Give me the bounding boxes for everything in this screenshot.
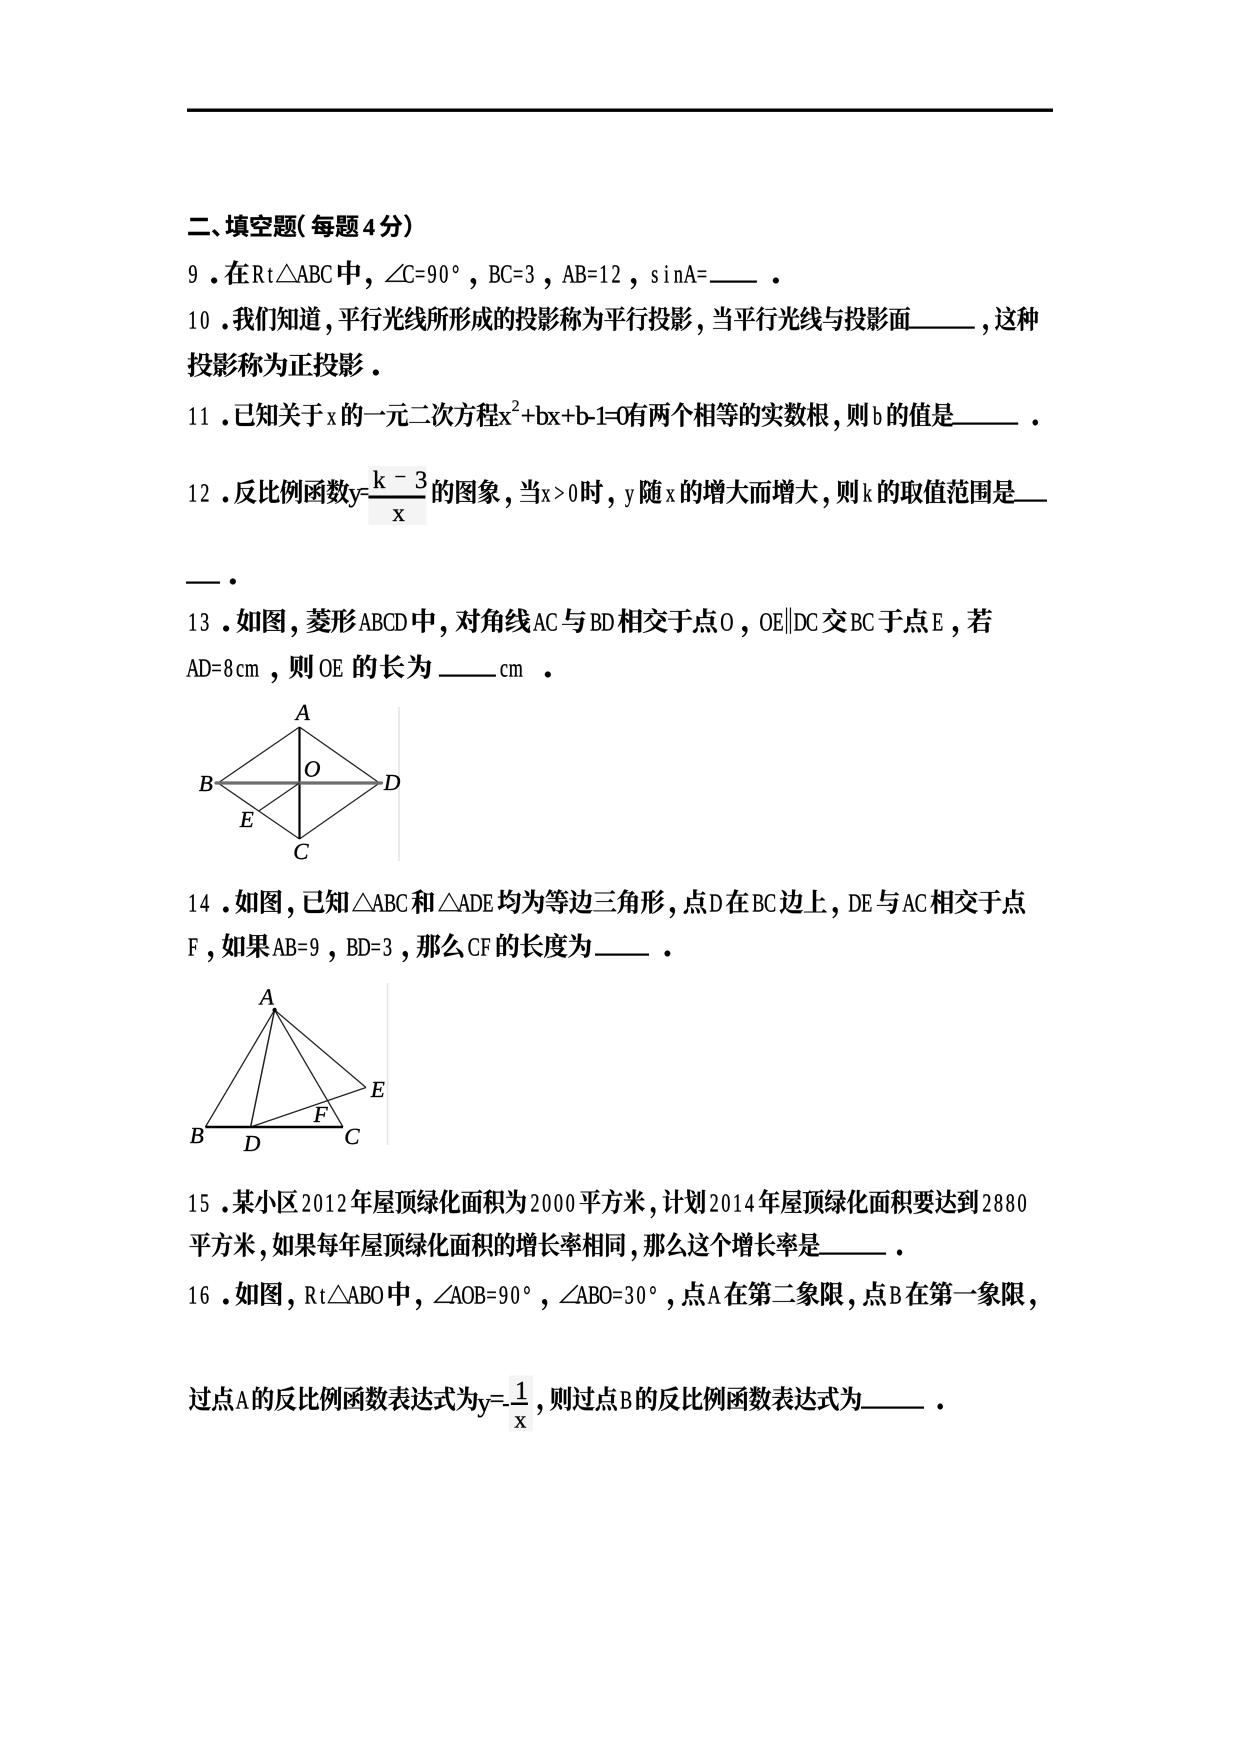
question 15 line 1 — [190, 1189, 1026, 1218]
figure 14 label D — [244, 1136, 261, 1151]
figure 14: baseline BC — [205, 1126, 343, 1128]
figure 13: rhombus side BC — [218, 783, 300, 839]
figure 14: vertex dot at A — [272, 1008, 276, 1012]
figure 14 label A — [259, 989, 274, 1004]
figure 13 label B — [199, 776, 212, 791]
figure 13 label E — [240, 812, 254, 827]
question 10 line 2 — [188, 352, 379, 376]
figure 13 label D — [384, 775, 401, 790]
figure 14 label F — [313, 1107, 327, 1122]
figure 13: rhombus side CD — [300, 783, 380, 839]
figure 13 label C — [294, 844, 308, 859]
question 14 line 1 — [190, 889, 1025, 918]
question 11 text — [190, 400, 1038, 431]
figure 14 label B — [190, 1128, 203, 1143]
question 14 line 2 — [188, 933, 670, 962]
figure 13: diagonal AC — [298, 727, 300, 839]
question 13 line 2 — [186, 654, 550, 683]
figure 14: side AD — [251, 1010, 275, 1127]
figure 13: rhombus side AD — [300, 727, 380, 783]
figure 13 image frame right edge — [398, 707, 400, 861]
question 10 line 1 — [190, 306, 1039, 335]
question 12 line 2 (blank continuation) — [186, 579, 236, 585]
top horizontal rule — [187, 109, 1053, 112]
figure 14: side DE through F — [251, 1088, 366, 1128]
figure 14: side AC — [275, 1010, 343, 1127]
question 16 line 2 — [189, 1376, 943, 1432]
figure 14 image frame right edge — [387, 983, 389, 1145]
question 16 line 1 — [190, 1281, 1036, 1310]
figure 14: side AB — [205, 1010, 274, 1127]
question 9 text — [189, 260, 779, 289]
figure 14 label C — [345, 1129, 359, 1144]
figure 13: rhombus side AB — [218, 727, 300, 783]
figure 14 label E — [371, 1082, 385, 1097]
figure 13 label O — [305, 761, 320, 776]
figure 13: segment OE — [259, 783, 300, 811]
question 12 line 1 — [190, 466, 1047, 525]
section heading 二、填空题（每题4分） — [188, 214, 411, 237]
question 15 line 2 — [189, 1232, 902, 1261]
figure 13 label A — [295, 705, 310, 720]
figure 14: side AE — [275, 1010, 366, 1088]
figure 13: diagonal BD (gray) — [216, 781, 382, 784]
question 13 line 1 — [190, 608, 992, 638]
